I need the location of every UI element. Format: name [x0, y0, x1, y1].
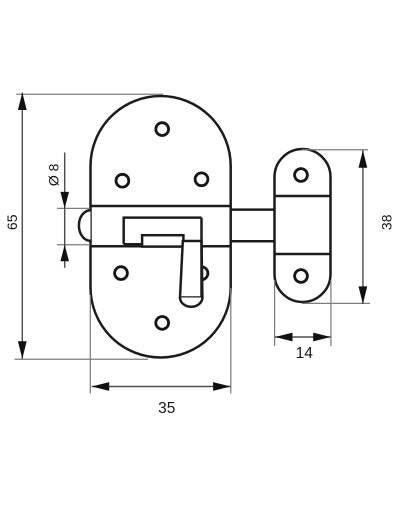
dimension 65: top extension line	[16, 93, 163, 95]
dimension 14: dimension line	[275, 336, 331, 338]
keeper screw hole bottom	[295, 270, 308, 283]
dimension 38: upper arrowhead	[359, 150, 368, 168]
bolt rod top edge	[231, 208, 275, 211]
dimension 35: dimension line	[92, 386, 231, 388]
screw hole top	[156, 123, 169, 136]
dimension 65: dimension line	[21, 93, 23, 359]
screw hole bottom	[156, 317, 169, 330]
dimension diameter 8: lower arrowhead	[60, 245, 69, 261]
dimension 14: right arrowhead	[313, 333, 331, 342]
dimension 65: upper arrowhead	[18, 93, 27, 111]
bolt rod bottom edge	[231, 240, 275, 243]
dimension diameter 8: lower extension line	[57, 244, 90, 246]
dimension 65: lower arrowhead	[18, 341, 27, 359]
bolt guide housing bottom edge	[91, 245, 231, 248]
dimension 14: left arrowhead	[275, 333, 293, 342]
keeper plate	[275, 149, 331, 302]
lever knob rounded tip	[180, 298, 202, 307]
svg-text:14: 14	[296, 345, 314, 362]
slider button	[142, 235, 183, 246]
keeper bridge bottom edge	[275, 253, 331, 256]
dimension 14: right extension line	[330, 280, 332, 346]
svg-text:35: 35	[158, 400, 175, 417]
keeper bridge top edge	[275, 195, 331, 198]
keeper screw hole top	[295, 169, 308, 182]
svg-text:38: 38	[378, 214, 394, 230]
dimension diameter 8: upper arrowhead	[60, 192, 69, 209]
dimension 38: bottom extension line	[302, 302, 370, 304]
dimension diameter 8: dimension line	[64, 153, 66, 268]
svg-text:Ø 8: Ø 8	[45, 163, 61, 186]
screw hole upper-right	[195, 173, 208, 186]
screw hole lower-left	[115, 267, 128, 280]
latch main plate body	[91, 96, 231, 357]
dimension 38: lower arrowhead	[359, 286, 368, 304]
bolt rounded left end	[79, 210, 91, 241]
screw hole lower-right (half hidden by lever)	[195, 267, 208, 280]
dimension 35: left arrowhead	[92, 382, 110, 391]
dimension 35: left extension line	[89, 295, 91, 394]
screw hole upper-left	[116, 174, 129, 187]
slider plate bottom edge	[124, 243, 142, 246]
dimension 35: right extension line	[230, 288, 232, 394]
slider right edge / lever right edge	[200, 218, 203, 298]
dimension diameter 8: upper extension line	[57, 207, 90, 209]
slider plate outline	[124, 218, 202, 245]
dimension 65: bottom extension line	[15, 358, 149, 360]
dimension 38: dimension line	[362, 150, 364, 304]
lever knob body	[180, 241, 202, 298]
svg-text:65: 65	[4, 214, 20, 230]
dimension 38: top extension line	[302, 149, 368, 151]
dimension 14: left extension line	[274, 280, 276, 346]
bolt guide housing top edge	[91, 205, 231, 208]
dimension 35: right arrowhead	[213, 382, 231, 391]
